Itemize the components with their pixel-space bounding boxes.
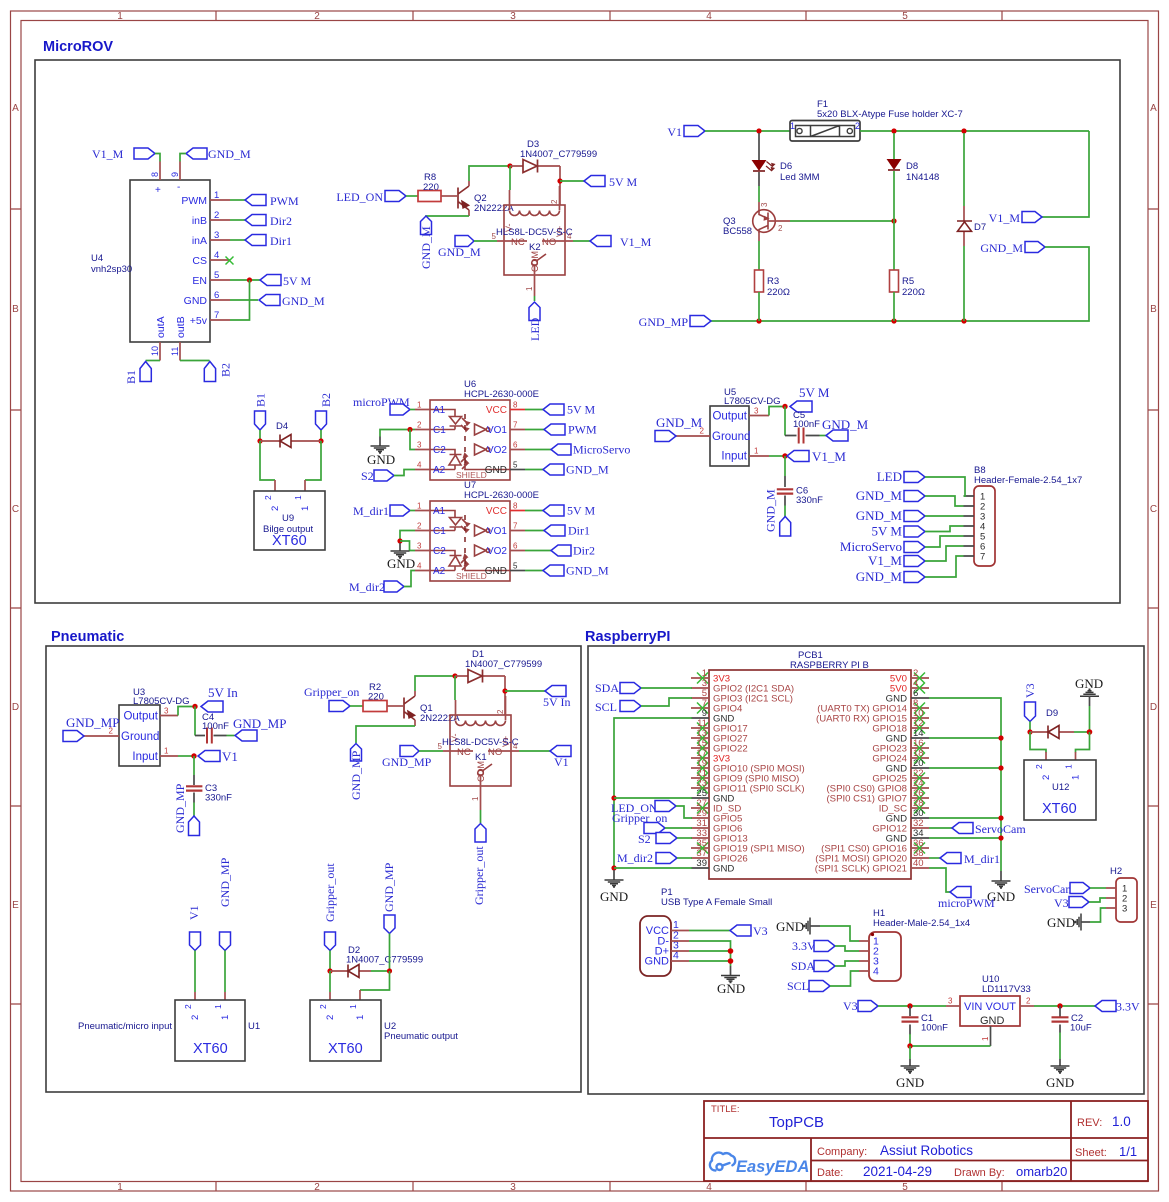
junction 5V M node [782,404,787,409]
wire 3.3V to H1 pin2 [835,946,859,951]
svg-text:GND: GND [776,919,804,934]
svg-text:GND_MP: GND_MP [639,315,689,329]
svg-text:XT60: XT60 [1042,801,1077,817]
svg-text:Output: Output [712,411,747,423]
port 5V M (U4) [260,274,311,288]
svg-text:2: 2 [417,522,422,531]
U3 pin 1 stub [160,755,178,757]
svg-text:1N4007_C779599: 1N4007_C779599 [520,149,597,160]
svg-text:3: 3 [510,1182,516,1193]
svg-text:GND: GND [485,465,507,476]
junction bottom rail R3 [756,318,761,323]
PCB1 left pin stubs [691,678,709,858]
svg-text:GND_MP: GND_MP [382,862,396,912]
svg-text:Pneumatic output: Pneumatic output [384,1031,458,1042]
port 5V M (U5) [790,385,830,412]
H1 pin1 marker dot [871,933,874,936]
svg-text:S2: S2 [638,832,651,846]
U7 internal LED 1 [430,511,469,533]
port ServoCam (pin32) [952,822,1026,836]
svg-text:8: 8 [513,502,518,511]
port microPWM [353,395,410,415]
D6 anode lead [758,133,760,160]
junction U7 GND node [397,538,402,543]
svg-text:V3: V3 [753,924,768,938]
svg-text:GND: GND [1047,915,1075,930]
svg-text:GND_M: GND_M [208,147,251,161]
frame column ticks top [216,11,1002,21]
svg-text:7: 7 [980,552,985,563]
svg-text:2: 2 [270,506,281,511]
wire to 5V In port [505,690,545,692]
port PWM [245,194,299,208]
svg-text:A2: A2 [433,566,446,577]
port GND_M [525,463,609,477]
svg-text:7: 7 [214,310,219,321]
svg-text:GND: GND [645,956,670,968]
U6 right pin stubs [510,409,525,411]
port GND_MP (vertical above U1) [218,857,232,950]
PCB1 left pin names (red) [713,684,805,865]
wire D4 node to U9 pin2 [260,441,275,480]
svg-text:SCL: SCL [595,700,617,714]
B8 pin stubs 1-7 [964,496,975,556]
wire node to C4 [194,707,196,736]
svg-text:100nF: 100nF [921,1023,948,1034]
svg-text:30: 30 [913,808,924,819]
wire node to C3 [193,756,195,775]
svg-text:2: 2 [855,121,860,131]
wire C6 to GND_M flag [784,506,786,517]
svg-text:3: 3 [164,707,169,716]
wire C4 to GND_MP [227,735,235,737]
junction D3 anode node [507,163,512,168]
svg-text:V1: V1 [554,755,569,769]
wire ServoCam to H2 pin1 [1090,887,1106,889]
PCB1 right pin stubs [911,678,929,868]
wire GND rail to pin34 [929,837,1001,839]
wire LED_ON to R8 [406,195,418,197]
wire GND rail to pin14 [929,737,1001,739]
ground symbol (U7) [399,543,401,551]
junction GND rail pin20 [998,765,1003,770]
port GND_MP (U3 ground) [63,715,119,742]
regulator U5 body [710,406,749,466]
H2 pin stubs [1106,888,1116,908]
svg-text:3: 3 [760,202,769,207]
port GND_MP (K1 NC) [382,746,432,770]
junction 5V In node [192,704,197,709]
K2 coil pin V+ lead [559,186,561,210]
svg-text:Dir2: Dir2 [573,544,595,558]
junction GND rail pin39 [611,865,616,870]
svg-text:BC558: BC558 [723,226,752,237]
svg-text:M_dir1: M_dir1 [353,504,389,518]
MicroROV section box [35,60,1120,603]
wire C3 to GND_MP flag [193,803,195,817]
K1 pin 4 NO lead [488,750,519,752]
svg-text:100nF: 100nF [202,721,229,732]
wire SCL to H1 pin4 [830,971,859,986]
U10 pin 1 lead (GND bottom) [990,1026,992,1046]
svg-text:SHIELD: SHIELD [456,571,487,581]
wire junction to U6 pin3 [410,430,415,450]
svg-text:PWM: PWM [181,195,207,207]
PCB1 right pin numbers (red) [913,668,924,869]
svg-text:3: 3 [948,997,953,1006]
wire R5 to bottom rail [893,292,895,321]
resistor R8 body [418,191,441,202]
ground symbol (above U12, flipped) [1080,689,1099,696]
svg-text:SCL: SCL [787,979,809,993]
svg-text:1: 1 [348,1004,358,1009]
svg-text:34: 34 [913,828,924,839]
port GND_M (U4 pin6) [259,294,325,308]
svg-text:Dir2: Dir2 [270,214,292,228]
svg-text:GND: GND [1075,676,1103,691]
port V1_M (right) [989,211,1042,225]
wire D9 node to U12 pin2 [1030,732,1046,753]
svg-text:E: E [1150,900,1157,911]
svg-text:XT60: XT60 [328,1041,363,1057]
port M_dir1 [353,504,410,518]
port Gripper_out (vertical, K1) [472,824,486,906]
port B1 (vertical) [124,362,151,385]
LED D6 [753,161,775,172]
svg-text:Dir1: Dir1 [568,524,590,538]
port V3 (vertical above D9) [1023,683,1037,721]
PCB1 right power pin names 5V0 [890,674,907,695]
frame row ticks left [11,209,22,1004]
svg-text:ServoCam: ServoCam [1024,882,1075,896]
svg-text:EN: EN [192,275,207,287]
svg-text:GND_M: GND_M [856,569,903,584]
svg-text:VO2: VO2 [487,546,507,557]
port SDA (H1) [791,959,835,973]
svg-text:3: 3 [214,230,219,241]
U7 inverter 2 [475,545,490,556]
wire C5 to GND_M [820,435,827,437]
port Gripper_on (RPI) [612,811,667,834]
junction GND rail pin14 [998,735,1003,740]
wire right rail down to V1_M [1042,131,1089,217]
port SDA [595,681,641,695]
wire Gripper_on to PCB1 pin31 [665,827,692,829]
svg-text:NC: NC [457,747,471,758]
junction GND rail pin30 [998,815,1003,820]
wire U4 pin3 to Dir1 port [230,239,245,241]
junction bottom rail R5 [891,318,896,323]
svg-text:GND_M: GND_M [822,417,869,432]
port B1 (above U9) [254,393,268,430]
svg-text:4: 4 [873,966,879,978]
wire to 5V M port [560,180,584,182]
port GND_M (K2 NC) [438,236,481,260]
port MicroServo [525,443,630,457]
svg-text:V1: V1 [222,749,238,764]
svg-text:5: 5 [214,270,219,281]
svg-text:2: 2 [325,1015,336,1020]
B8 pin numbers 1-7 [980,492,985,563]
svg-text:1: 1 [1071,775,1082,780]
U7 internal GND line [465,565,510,571]
svg-text:6: 6 [513,441,518,450]
svg-text:VCC: VCC [486,506,507,517]
port B2 (above U9) [316,393,334,430]
svg-text:omarb20: omarb20 [1016,1164,1067,1179]
wire U4 pin7 to junction [230,280,250,320]
svg-text:5: 5 [902,11,908,22]
diode D3 [510,160,560,173]
svg-text:R5: R5 [902,276,914,287]
svg-text:4: 4 [214,250,219,261]
svg-text:1: 1 [355,1015,366,1020]
svg-text:GND: GND [886,834,907,845]
svg-text:1.0: 1.0 [1112,1114,1131,1129]
svg-text:1N4007_C779599: 1N4007_C779599 [465,659,542,670]
U3 pin 2 stub [84,735,119,737]
svg-text:5V M: 5V M [872,524,903,539]
svg-text:M_dir2: M_dir2 [349,580,385,594]
resistor R5 body [890,270,899,292]
svg-text:3: 3 [417,441,422,450]
title block frame [704,1101,1148,1181]
wire D2 cathode node to U2 pin1 [360,971,390,990]
svg-text:3: 3 [1122,904,1127,915]
svg-text:GND_M: GND_M [980,241,1023,255]
svg-text:U12: U12 [1052,782,1069,793]
svg-text:GND: GND [713,714,734,725]
svg-text:1: 1 [213,1004,223,1009]
wire Gripper_out down to D2 node [329,951,331,972]
svg-text:GND: GND [886,764,907,775]
wire U4 pin5 to 5V M port [230,279,260,281]
svg-text:+: + [155,185,161,196]
frame column numbers bottom [117,1182,908,1193]
svg-text:B2: B2 [219,363,233,377]
svg-text:5V In: 5V In [543,695,570,709]
port GND_M (B8 pin2) [856,488,925,503]
svg-text:GND_MP: GND_MP [66,715,119,730]
svg-text:2: 2 [263,495,273,500]
svg-text:4: 4 [567,232,572,241]
port Dir1 [245,234,292,248]
svg-text:GND_MP: GND_MP [233,716,286,731]
wire D2 node to U2 pin2 [329,971,331,992]
svg-text:RASPBERRY PI B: RASPBERRY PI B [790,660,869,671]
U9 pin2 stub [274,480,276,491]
U7 internal LED 2 [430,551,468,571]
svg-text:CS: CS [192,255,207,267]
transistor Q2 2N2222A [458,181,469,216]
svg-text:100nF: 100nF [793,419,820,430]
U12 pin2 stub [1045,752,1047,760]
svg-text:Dir1: Dir1 [270,234,292,248]
U5 pin 1 stub [749,455,769,457]
PCB1 left pin numbers (GND black) [696,708,707,869]
wire U4 pin2 to Dir2 port [230,219,245,221]
svg-text:Led 3MM: Led 3MM [780,172,820,183]
svg-text:GND_M: GND_M [566,463,609,477]
svg-text:TITLE:: TITLE: [711,1104,740,1115]
svg-text:9: 9 [170,172,180,177]
svg-text:B: B [12,304,19,315]
wire V3 to H2 pin2 [1089,898,1106,902]
svg-text:GND: GND [713,864,734,875]
svg-text:7: 7 [513,522,518,531]
svg-text:3: 3 [510,11,516,22]
resistor R3 body [755,270,764,292]
svg-text:2: 2 [496,709,505,714]
svg-text:Drawn By:: Drawn By: [954,1167,1005,1179]
relay K1 HLS8L-DC5V-S-C body [450,715,511,786]
wire GND rail to pin25 [614,797,692,799]
wire Q2 collector up to D3 node [469,166,510,181]
svg-text:VOUT: VOUT [985,1001,1016,1013]
svg-text:Pneumatic: Pneumatic [51,629,124,645]
svg-text:1: 1 [214,190,219,201]
svg-text:1: 1 [117,1182,123,1193]
svg-text:3.3V: 3.3V [792,939,816,953]
wire GND_M to B8 pin2 [925,496,964,506]
header H1 Header-Male-2.54 1x4 body [869,932,901,981]
diode D8 1N4148 [888,160,901,171]
svg-text:1: 1 [417,502,422,511]
U7 left pin numbers [417,502,422,571]
svg-text:HLS8L-DC5V-S-C: HLS8L-DC5V-S-C [496,227,573,238]
svg-text:Gripper_out: Gripper_out [323,863,337,922]
wire U6 pin2 to GND [380,430,415,437]
port V1 (U3) [198,749,238,764]
svg-text:10uF: 10uF [1070,1023,1092,1034]
svg-text:GND: GND [387,556,415,571]
svg-text:HCPL-2630-000E: HCPL-2630-000E [464,389,539,400]
svg-text:10: 10 [150,346,160,356]
wire C1 bottom to ground [909,1046,911,1059]
port GND_M (right) [980,241,1045,255]
wire D1 cathode down to relay K1 [504,676,506,715]
port V1_M top-left [92,147,155,161]
svg-text:4: 4 [513,742,518,751]
wire B2 down to D4 node [320,430,322,441]
U2 pin2 stub [329,992,331,1000]
junction D7 branch [961,128,966,133]
svg-text:2: 2 [1034,764,1044,769]
port LED_ON [611,801,676,816]
U5 pin 2 stub [676,435,710,437]
svg-text:M_dir1: M_dir1 [964,852,1000,866]
svg-text:5V M: 5V M [567,504,595,518]
wire GND down to D9 cathode node [1089,706,1091,732]
junction 5V In tap [502,688,507,693]
Q3 top lead [758,202,760,211]
wire GND_M to U4 pin9 [180,154,186,162]
K1 pin 5 NC lead [443,750,473,752]
wire U5 pin3 to 5V M node [769,407,785,416]
junction P1 D+ [728,948,734,954]
svg-text:USB Type A Female Small: USB Type A Female Small [661,897,772,908]
wire U4 pin6 to GND_M port [230,299,258,301]
svg-text:MicroServo: MicroServo [840,539,902,554]
svg-text:E: E [12,900,19,911]
svg-text:2: 2 [1041,775,1052,780]
svg-text:PWM: PWM [568,423,597,437]
K1 COM pin lead [480,776,482,810]
svg-text:TopPCB: TopPCB [769,1114,824,1131]
svg-text:-: - [177,182,180,193]
port 5V M [525,403,595,417]
K1 coil pin V- lead [455,700,457,720]
svg-text:3: 3 [754,407,759,416]
U7 shield dashed line [464,515,466,571]
diode D9 [1030,726,1090,739]
U6 left pin stubs [415,410,430,470]
svg-text:MicroServo: MicroServo [573,443,630,457]
P1 pin numbers [673,919,679,962]
svg-text:VO1: VO1 [487,526,507,537]
svg-text:25: 25 [696,788,707,799]
svg-text:V3: V3 [843,999,858,1013]
svg-text:GND: GND [600,889,628,904]
svg-text:microPWM: microPWM [938,896,995,910]
svg-text:220: 220 [423,182,439,193]
wire C1 to GND + U10 pin1 [910,1034,991,1046]
svg-text:GND_M: GND_M [419,226,433,269]
K2 COM switch [532,254,546,266]
svg-text:2: 2 [318,1004,328,1009]
svg-text:inB: inB [192,215,207,227]
wire Q1 collector up to D1 node [415,676,455,691]
svg-text:GND_MP: GND_MP [349,750,363,800]
svg-text:5V M: 5V M [609,175,637,189]
svg-text:V3: V3 [1023,683,1037,698]
diode D2 [330,965,390,978]
wire COM to LED flag [534,296,536,301]
U12 pin1 stub [1075,752,1077,760]
svg-text:V1_M: V1_M [812,449,846,464]
port LED (B8 pin1) [877,469,925,484]
port ServoCam (H2) [1024,882,1090,896]
svg-text:Ground: Ground [121,731,159,743]
svg-text:1: 1 [471,796,480,801]
U4 right pin numbers [214,190,219,321]
wire D6 to Q3 [758,186,760,202]
svg-text:7: 7 [513,421,518,430]
U4 pin 8 stub [159,162,161,181]
PCB1 left no-connect X marks [697,673,708,854]
capacitor C2 [1052,1006,1069,1033]
frame row letters left [12,103,19,911]
PCB1 right pin numbers (GND black) [913,688,924,839]
port S2 (RPI) [638,832,677,846]
U6 pin names A1 C1 C2 A2 [433,405,446,476]
K2 coil pin V- lead [509,190,511,210]
svg-text:2: 2 [183,1004,193,1009]
wire V3 down to D9 node [1029,722,1031,733]
svg-text:Input: Input [132,751,158,763]
svg-text:4: 4 [417,461,422,470]
U3 pin 3 stub [160,715,178,717]
port GND_M top [186,147,251,161]
U6 right pin numbers [513,401,518,450]
port GND_MP (vertical below C3) [173,783,200,835]
wire Q3 base to D8 node [790,220,894,222]
svg-text:4: 4 [706,11,712,22]
U6 internal GND line [465,464,510,470]
wire GND rail to pin30 [929,817,1001,819]
port 5V M [525,504,595,518]
svg-text:5: 5 [513,461,518,470]
